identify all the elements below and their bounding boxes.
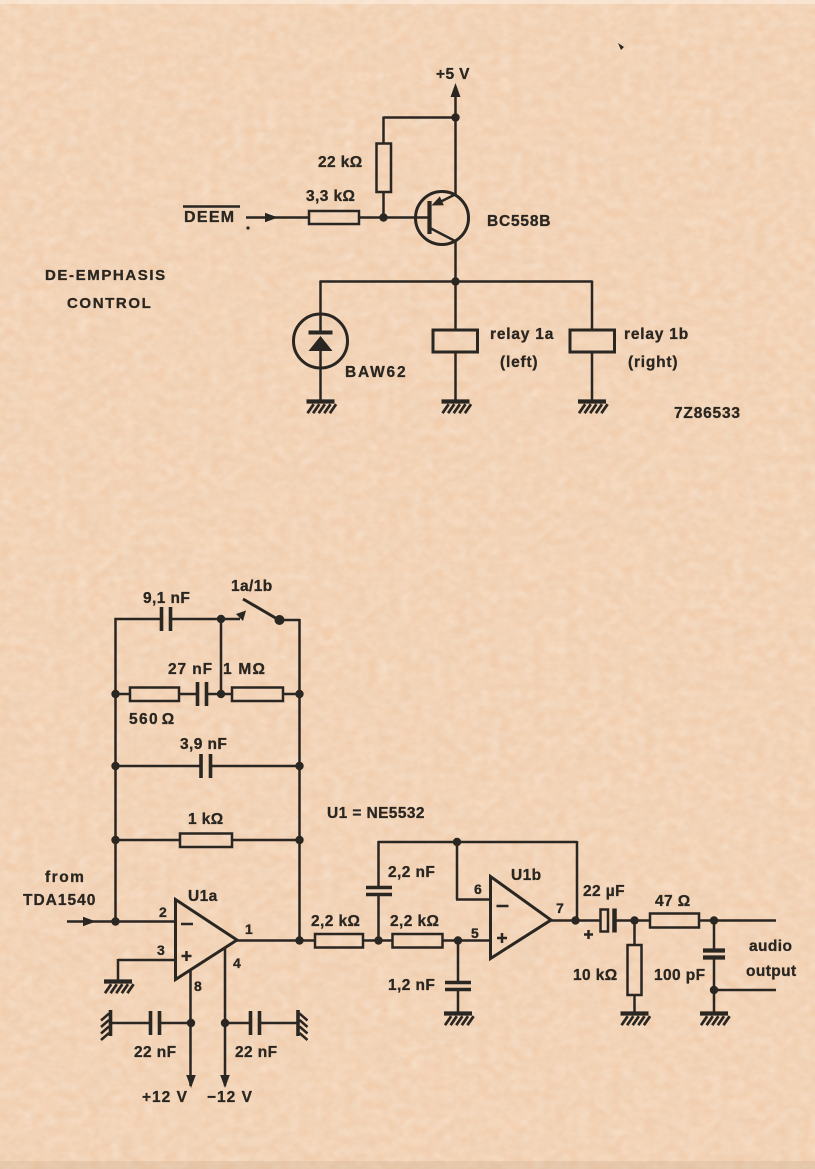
svg-text:U1a: U1a bbox=[188, 888, 218, 905]
svg-text:2: 2 bbox=[159, 904, 167, 920]
svg-text:6: 6 bbox=[474, 881, 482, 897]
svg-text:audio: audio bbox=[749, 938, 792, 955]
node 10k branch bbox=[630, 916, 638, 924]
svg-text:22 kΩ: 22 kΩ bbox=[318, 154, 363, 171]
resistor 1 MOhm bbox=[232, 688, 283, 702]
speck artifact 2 bbox=[246, 226, 249, 229]
svg-text:3,3 kΩ: 3,3 kΩ bbox=[306, 188, 355, 205]
svg-text:U1b: U1b bbox=[511, 867, 541, 884]
node pin4 decoupling bbox=[221, 1019, 229, 1027]
wire rail to relay 1b bbox=[591, 281, 594, 331]
svg-text:22 nF: 22 nF bbox=[134, 1044, 176, 1061]
capacitor 2,2 nF branch bbox=[366, 841, 392, 941]
wall hatch right bbox=[298, 1010, 308, 1040]
wire between 2,2k resistors bbox=[363, 939, 393, 942]
svg-text:560 Ω: 560 Ω bbox=[129, 711, 176, 728]
wire DEEM input with arrow bbox=[246, 213, 309, 223]
node input junction bbox=[111, 917, 119, 925]
resistor 22 kOhm bbox=[377, 144, 392, 193]
svg-text:10 kΩ: 10 kΩ bbox=[573, 967, 618, 984]
wire right feedback rail bbox=[298, 619, 301, 941]
svg-text:output: output bbox=[746, 963, 797, 980]
label DE-EMPHASIS CONTROL bbox=[45, 267, 167, 312]
svg-text:1: 1 bbox=[245, 921, 253, 937]
wire 100pF to ground bbox=[713, 990, 716, 1012]
svg-text:2,2 kΩ: 2,2 kΩ bbox=[390, 913, 439, 930]
node junction +5V branch bbox=[451, 113, 459, 121]
ground at pin 3 bbox=[104, 982, 134, 994]
node row2 mid bbox=[217, 690, 225, 698]
node 2,2nF branch bbox=[374, 936, 382, 944]
svg-text:relay 1b: relay 1b bbox=[624, 326, 689, 343]
svg-text:U1 = NE5532: U1 = NE5532 bbox=[327, 805, 425, 822]
svg-text:1,2 nF: 1,2 nF bbox=[388, 977, 435, 994]
node pin8 decoupling bbox=[187, 1019, 195, 1027]
svg-text:7: 7 bbox=[556, 900, 564, 916]
-12V supply arrow bbox=[220, 1075, 230, 1088]
svg-text:47 Ω: 47 Ω bbox=[655, 893, 691, 910]
svg-text:22 µF: 22 µF bbox=[583, 883, 625, 900]
node feedback pin6 bbox=[453, 838, 461, 846]
svg-text:+12 V: +12 V bbox=[142, 1089, 188, 1106]
svg-text:1 MΩ: 1 MΩ bbox=[223, 661, 266, 678]
wire collector rail bbox=[320, 280, 592, 283]
wire row1 mid bbox=[172, 618, 240, 621]
ground below relay 1b bbox=[578, 402, 608, 414]
capacitor 100 pF bbox=[703, 921, 725, 991]
wire input with arrow bbox=[67, 917, 176, 927]
wire row1 down to row2 bbox=[220, 619, 223, 694]
capacitor 3,9 nF bbox=[201, 754, 211, 778]
svg-text:DE-EMPHASIS: DE-EMPHASIS bbox=[45, 267, 167, 284]
wire pin 8 down bbox=[189, 970, 192, 1086]
node U1a output junction bbox=[295, 936, 303, 944]
node 100pF branch bbox=[710, 916, 718, 924]
wire branch to 22k bbox=[384, 117, 456, 145]
relay K1a coil bbox=[433, 330, 478, 352]
node row2 left bbox=[111, 690, 119, 698]
wire U1b output bbox=[550, 919, 601, 922]
scan shading bottom bbox=[0, 1161, 815, 1169]
node row3 left bbox=[111, 762, 119, 770]
wire rail to relay 1a bbox=[454, 282, 457, 331]
switch 1a/1b arm with pole dot bbox=[243, 599, 285, 625]
svg-text:27 nF: 27 nF bbox=[168, 661, 213, 678]
resistor 2,2 kOhm second bbox=[393, 934, 443, 948]
wire pin 6 branch bbox=[456, 842, 491, 900]
label DEEM (active low) bbox=[183, 207, 240, 227]
op-amp U1a bbox=[176, 900, 238, 980]
svg-text:8: 8 bbox=[194, 978, 202, 994]
wire output top line bbox=[699, 919, 776, 922]
+12V supply arrow bbox=[186, 1075, 196, 1088]
node output lower junction bbox=[710, 986, 718, 994]
svg-text:from: from bbox=[45, 869, 85, 886]
svg-text:TDA1540: TDA1540 bbox=[23, 892, 96, 909]
svg-text:2,2 nF: 2,2 nF bbox=[388, 864, 435, 881]
wire row3 right bbox=[211, 765, 300, 768]
wire row1 left bbox=[115, 618, 161, 621]
node row4 left bbox=[111, 836, 119, 844]
svg-text:22 nF: 22 nF bbox=[235, 1044, 277, 1061]
label relay 1b (right) bbox=[624, 326, 689, 371]
node row4 right bbox=[295, 836, 303, 844]
node base junction bbox=[379, 213, 387, 221]
ground below BAW62 bbox=[307, 402, 337, 414]
capacitor 27 nF bbox=[198, 682, 207, 706]
switch contact arrow bbox=[236, 611, 246, 622]
svg-text:DEEM: DEEM bbox=[184, 209, 235, 226]
wire row4 right bbox=[232, 839, 300, 842]
svg-text:−12 V: −12 V bbox=[207, 1089, 253, 1106]
ground below 10 kOhm bbox=[621, 1014, 651, 1026]
wire row3 left bbox=[116, 765, 200, 768]
capacitor 22 nF left bbox=[111, 1011, 191, 1035]
svg-text:relay 1a: relay 1a bbox=[490, 326, 554, 343]
wire to pin 5 bbox=[443, 939, 491, 942]
wire row2 right bbox=[283, 693, 300, 696]
wire pin 4 down bbox=[224, 948, 227, 1086]
node collector junction bbox=[451, 277, 459, 285]
svg-text:7Z86533: 7Z86533 bbox=[674, 405, 741, 422]
wire U1b feedback top rail bbox=[378, 841, 577, 921]
capacitor 9,1 nF bbox=[162, 607, 171, 631]
wire rail to diode bbox=[319, 281, 322, 334]
resistor 1 kOhm bbox=[180, 834, 232, 848]
ground below 1,2 nF bbox=[444, 1014, 474, 1026]
relay K1b coil bbox=[570, 330, 615, 352]
wire relay 1a to ground bbox=[454, 352, 457, 400]
svg-text:5: 5 bbox=[471, 925, 479, 941]
wire 22k to base node bbox=[382, 192, 385, 218]
wire to transistor base bbox=[359, 216, 428, 219]
wire node to 1M bbox=[221, 693, 232, 696]
svg-text:1 kΩ: 1 kΩ bbox=[188, 811, 224, 828]
svg-text:BC558B: BC558B bbox=[487, 213, 551, 230]
wire output lower line bbox=[714, 989, 776, 992]
node row1 junction bbox=[217, 615, 225, 623]
resistor 2,2 kOhm first bbox=[315, 934, 363, 948]
wire 560 to 27nF bbox=[179, 693, 196, 696]
svg-text:+5 V: +5 V bbox=[436, 66, 470, 83]
wire row4 left bbox=[116, 839, 181, 842]
wire 22uF to 47 Ohm bbox=[616, 919, 650, 922]
node 1,2nF branch bbox=[454, 936, 462, 944]
wire row2 left bbox=[116, 693, 131, 696]
node output junction right rail bbox=[571, 916, 579, 924]
label relay 1a (left) bbox=[490, 326, 554, 371]
wire 27nF to node bbox=[208, 693, 221, 696]
label audio output bbox=[746, 938, 797, 980]
node row3 right bbox=[295, 762, 303, 770]
resistor 3,3 kOhm bbox=[309, 211, 359, 224]
diode D1 BAW62 bbox=[294, 314, 348, 400]
capacitor 22 nF right bbox=[225, 1011, 297, 1035]
label from TDA1540 bbox=[23, 869, 96, 909]
svg-text:4: 4 bbox=[233, 955, 241, 971]
wire switch to right rail bbox=[279, 619, 300, 622]
capacitor 22 uF electrolytic bbox=[584, 909, 615, 940]
svg-text:3,9 nF: 3,9 nF bbox=[180, 736, 227, 753]
transistor Q1 BC558B (PNP) bbox=[416, 192, 469, 245]
wire emitter to +5V bbox=[454, 118, 457, 196]
wire U1a output bbox=[236, 939, 315, 942]
svg-text:(left): (left) bbox=[500, 354, 538, 371]
svg-text:(right): (right) bbox=[628, 354, 678, 371]
svg-text:100 pF: 100 pF bbox=[654, 967, 706, 984]
resistor 560 Ohm bbox=[130, 688, 179, 702]
svg-text:CONTROL: CONTROL bbox=[67, 295, 152, 312]
svg-text:BAW62: BAW62 bbox=[345, 364, 407, 381]
resistor 10 kOhm to ground bbox=[628, 921, 642, 1013]
+5V supply arrow bbox=[451, 83, 461, 118]
wire relay 1b to ground bbox=[591, 352, 594, 400]
wall hatch left bbox=[101, 1010, 111, 1040]
resistor 47 Ohm bbox=[650, 914, 699, 928]
wire collector down bbox=[454, 240, 457, 282]
ground below 100 pF bbox=[700, 1014, 730, 1026]
wire left feedback rail bbox=[114, 618, 117, 922]
svg-text:2,2 kΩ: 2,2 kΩ bbox=[311, 913, 360, 930]
wire pin3 to ground bbox=[118, 959, 176, 980]
capacitor 1,2 nF to ground bbox=[445, 941, 471, 1013]
node row2 right bbox=[295, 690, 303, 698]
svg-text:3: 3 bbox=[157, 942, 165, 958]
speck artifact bbox=[618, 43, 624, 50]
ground below relay 1a bbox=[442, 402, 472, 414]
svg-text:1a/1b: 1a/1b bbox=[231, 578, 273, 595]
op-amp U1b bbox=[491, 877, 552, 959]
svg-text:9,1 nF: 9,1 nF bbox=[143, 590, 190, 607]
